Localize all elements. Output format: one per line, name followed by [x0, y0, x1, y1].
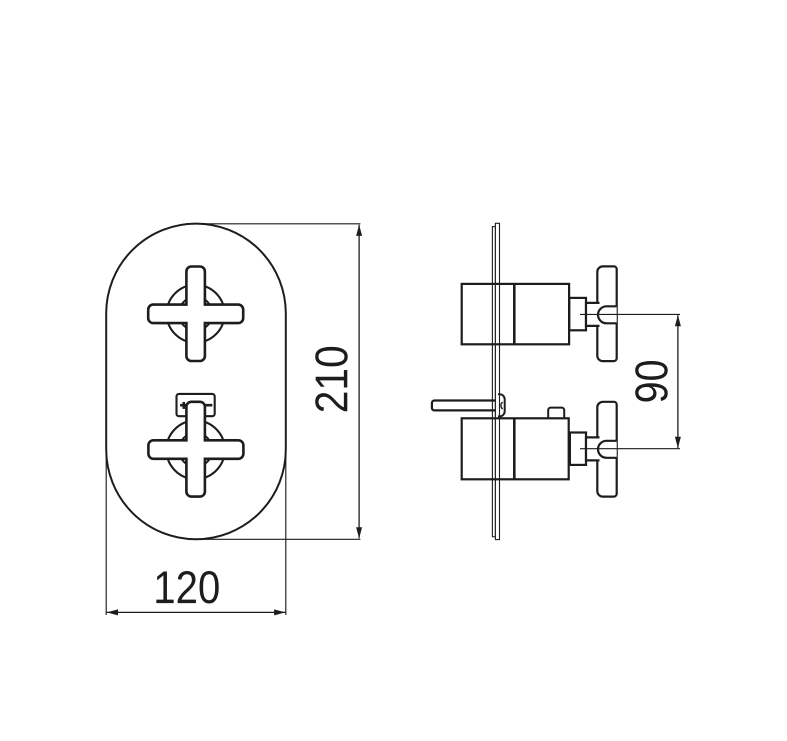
dim 210 extension line top [196, 223, 360, 225]
dim 210 dimension line [358, 225, 360, 539]
bottom valve button [548, 408, 564, 419]
bottom valve neck [586, 437, 600, 460]
dim 120 label [156, 571, 218, 604]
dim 210 arrow up [356, 225, 362, 236]
indicator plus tick [183, 402, 186, 409]
top handle escutcheon circle [167, 285, 225, 343]
top handle arm cap [598, 306, 617, 323]
dim 120 dimension line [107, 611, 286, 613]
wall plate front strip [495, 223, 499, 539]
bottom handle hub circle [179, 433, 213, 467]
bottom valve body [462, 418, 569, 479]
top valve neck [586, 303, 600, 326]
dim 210 arrow down [356, 527, 362, 538]
bottom handle indicator rectangle [177, 394, 215, 416]
dim 90 dimension line [677, 315, 679, 448]
dim 210 label [315, 347, 348, 411]
bulge inner arc [501, 402, 503, 409]
bottom valve pipe end bulge [498, 394, 505, 416]
bottom handle cross [148, 402, 243, 497]
indicator plus-minus line [180, 404, 212, 407]
bottom handle arm cap [598, 441, 617, 458]
top valve stem [569, 298, 586, 330]
top valve body divider [513, 284, 516, 344]
top valve body [462, 284, 569, 344]
top handle hub circle [179, 297, 213, 331]
bottom valve body divider [513, 418, 516, 479]
top handle cross [148, 267, 243, 362]
wall plate back strip [492, 227, 495, 537]
dim 120 extension line left [105, 442, 107, 615]
bottom valve pipe [432, 401, 496, 411]
dim 90 extension line top [580, 313, 680, 315]
bottom handle side bar [597, 402, 616, 497]
bottom valve stem [570, 433, 586, 465]
dim 90 label [635, 361, 668, 402]
dim 120 arrow left [107, 609, 118, 615]
bottom handle escutcheon circle [166, 421, 224, 479]
dim 90 arrow up [675, 315, 681, 326]
dim 90 extension line bottom [580, 448, 680, 450]
dim 120 extension line right [285, 442, 287, 615]
dim 90 arrow down [675, 437, 681, 448]
top handle side bar [597, 266, 616, 361]
front view oval plate [106, 224, 286, 540]
dim 210 extension line bottom [196, 538, 360, 540]
dim 120 arrow right [274, 609, 285, 615]
